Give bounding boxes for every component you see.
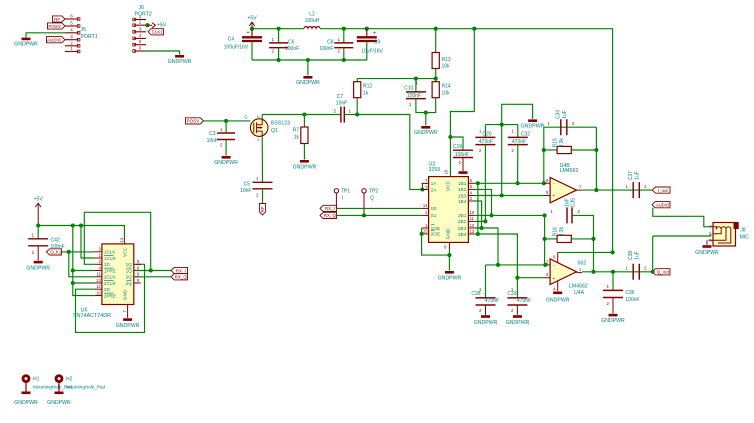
svg-text:1nF: 1nF bbox=[564, 198, 570, 207]
svg-text:U4A: U4A bbox=[574, 290, 585, 296]
svg-text:S: S bbox=[257, 138, 260, 142]
svg-text:GNDPWR: GNDPWR bbox=[695, 250, 719, 256]
svg-text:1PRE: 1PRE bbox=[104, 268, 116, 273]
svg-text:L2: L2 bbox=[309, 12, 315, 18]
svg-text:C35: C35 bbox=[571, 198, 577, 207]
svg-text:-: - bbox=[553, 181, 555, 187]
svg-text:D: D bbox=[257, 115, 260, 119]
svg-text:Q_out: Q_out bbox=[657, 270, 670, 275]
svg-text:13: 13 bbox=[96, 278, 101, 283]
svg-text:470nF: 470nF bbox=[485, 298, 499, 304]
svg-text:GNDPWR: GNDPWR bbox=[414, 130, 438, 136]
svg-text:Q: Q bbox=[370, 195, 374, 201]
svg-text:C6: C6 bbox=[288, 40, 295, 46]
svg-text:GNDPWR: GNDPWR bbox=[474, 320, 498, 326]
svg-text:2B2: 2B2 bbox=[458, 219, 467, 225]
svg-text:C42: C42 bbox=[51, 237, 60, 243]
svg-text:2B4: 2B4 bbox=[458, 232, 467, 238]
svg-text:100nF: 100nF bbox=[285, 46, 299, 52]
svg-text:J6: J6 bbox=[139, 5, 145, 11]
svg-text:14: 14 bbox=[423, 203, 428, 208]
svg-text:2B1: 2B1 bbox=[458, 213, 467, 219]
svg-text:12: 12 bbox=[470, 223, 475, 228]
svg-text:J5: J5 bbox=[81, 27, 87, 33]
svg-text:Q1: Q1 bbox=[271, 128, 278, 134]
svg-text:11: 11 bbox=[97, 272, 102, 277]
svg-text:S1: S1 bbox=[431, 213, 437, 219]
svg-text:1uF: 1uF bbox=[635, 171, 641, 180]
svg-text:TP2: TP2 bbox=[369, 189, 378, 195]
svg-text:J8: J8 bbox=[740, 228, 746, 234]
svg-text:TP1: TP1 bbox=[341, 189, 350, 195]
svg-text:LM4562: LM4562 bbox=[560, 168, 579, 174]
svg-text:1k: 1k bbox=[294, 135, 300, 141]
svg-text:GNDPWR: GNDPWR bbox=[168, 59, 192, 65]
svg-text:2CLR: 2CLR bbox=[104, 281, 116, 286]
svg-text:RF: RF bbox=[260, 206, 265, 212]
svg-text:R16: R16 bbox=[553, 227, 559, 236]
svg-text:I: I bbox=[342, 195, 343, 201]
svg-text:1Q: 1Q bbox=[126, 268, 133, 273]
svg-text:2A: 2A bbox=[431, 187, 438, 193]
svg-text:GND: GND bbox=[446, 228, 452, 239]
svg-text:+: + bbox=[373, 31, 376, 37]
svg-text:2D: 2D bbox=[104, 287, 111, 292]
svg-text:1D: 1D bbox=[104, 262, 111, 267]
svg-text:1CLK: 1CLK bbox=[104, 250, 116, 255]
svg-text:1B1: 1B1 bbox=[458, 181, 467, 187]
svg-text:562: 562 bbox=[578, 261, 587, 267]
svg-text:2OE: 2OE bbox=[431, 232, 441, 238]
svg-text:GNDPWR: GNDPWR bbox=[293, 165, 317, 171]
svg-text:+: + bbox=[552, 194, 555, 200]
svg-text:GND: GND bbox=[123, 289, 128, 300]
svg-text:C8: C8 bbox=[327, 40, 334, 46]
svg-text:GNDPWR: GNDPWR bbox=[546, 298, 570, 304]
svg-text:PORT2: PORT2 bbox=[135, 12, 152, 18]
svg-text:+5V: +5V bbox=[247, 15, 257, 21]
svg-text:POSV: POSV bbox=[48, 24, 61, 29]
svg-text:RF: RF bbox=[54, 17, 60, 22]
svg-text:VCC: VCC bbox=[123, 246, 128, 256]
svg-text:15: 15 bbox=[423, 229, 428, 234]
svg-text:GNDPWR: GNDPWR bbox=[296, 80, 320, 86]
svg-text:AUDIO: AUDIO bbox=[47, 38, 62, 43]
svg-text:T: T bbox=[709, 224, 712, 229]
svg-text:1uF: 1uF bbox=[562, 110, 568, 119]
svg-text:470nF: 470nF bbox=[479, 139, 493, 145]
svg-text:GNDPWR: GNDPWR bbox=[521, 124, 545, 130]
svg-text:PORT1: PORT1 bbox=[81, 34, 98, 40]
svg-text:MountingHole_Pad: MountingHole_Pad bbox=[66, 384, 106, 389]
svg-text:GNDPWR: GNDPWR bbox=[601, 318, 625, 324]
svg-text:C38: C38 bbox=[628, 251, 634, 260]
svg-text:1A: 1A bbox=[431, 181, 438, 187]
svg-text:R15: R15 bbox=[553, 138, 559, 147]
svg-text:-: - bbox=[553, 263, 555, 269]
svg-text:+5V: +5V bbox=[157, 22, 167, 28]
svg-text:10k: 10k bbox=[442, 64, 451, 70]
svg-text:C10: C10 bbox=[404, 85, 413, 91]
svg-text:100nF: 100nF bbox=[319, 46, 333, 52]
svg-text:SN74ACT74DR: SN74ACT74DR bbox=[73, 313, 111, 319]
svg-text:2CLK: 2CLK bbox=[104, 275, 116, 280]
svg-text:C32: C32 bbox=[521, 132, 530, 138]
svg-text:1k: 1k bbox=[363, 91, 369, 97]
svg-text:10nF: 10nF bbox=[336, 101, 347, 107]
svg-text:RX_I: RX_I bbox=[176, 268, 186, 273]
svg-text:R12: R12 bbox=[363, 84, 372, 90]
svg-text:S: S bbox=[709, 238, 712, 243]
svg-text:13: 13 bbox=[470, 229, 475, 234]
svg-text:+5V: +5V bbox=[34, 196, 44, 202]
svg-text:3.3k: 3.3k bbox=[559, 138, 565, 148]
svg-text:H2: H2 bbox=[66, 377, 73, 383]
svg-text:GNDPWR: GNDPWR bbox=[438, 276, 462, 282]
svg-text:3.3k: 3.3k bbox=[559, 226, 565, 236]
svg-text:2PRE: 2PRE bbox=[104, 293, 116, 298]
svg-text:100nF: 100nF bbox=[625, 297, 639, 303]
svg-text:RX_I: RX_I bbox=[325, 206, 335, 211]
svg-text:C37: C37 bbox=[628, 171, 634, 180]
svg-text:10uF/16V: 10uF/16V bbox=[361, 49, 383, 55]
svg-text:100nF: 100nF bbox=[455, 152, 469, 158]
svg-text:10: 10 bbox=[96, 290, 101, 295]
svg-text:470nF: 470nF bbox=[512, 139, 526, 145]
svg-text:G: G bbox=[244, 115, 247, 120]
svg-text:1uF: 1uF bbox=[635, 251, 641, 260]
svg-text:100uF/16V: 100uF/16V bbox=[224, 45, 249, 51]
svg-text:C4: C4 bbox=[228, 37, 235, 43]
svg-text:C9: C9 bbox=[374, 40, 381, 46]
svg-text:12: 12 bbox=[96, 284, 101, 289]
svg-text:11: 11 bbox=[470, 216, 475, 221]
svg-text:GNDPWR: GNDPWR bbox=[14, 400, 38, 406]
svg-text:C34: C34 bbox=[556, 110, 562, 119]
svg-text:CLK1: CLK1 bbox=[50, 250, 62, 255]
svg-text:GNDPWR: GNDPWR bbox=[47, 400, 71, 406]
svg-text:LM4562: LM4562 bbox=[569, 283, 588, 289]
svg-text:1B3: 1B3 bbox=[458, 193, 467, 199]
svg-text:GNDPWR: GNDPWR bbox=[506, 320, 530, 326]
svg-text:RX_Q: RX_Q bbox=[175, 275, 188, 280]
svg-text:+: + bbox=[246, 30, 249, 36]
svg-text:GNDPWR: GNDPWR bbox=[116, 323, 140, 329]
svg-text:C3: C3 bbox=[209, 131, 216, 137]
svg-text:R13: R13 bbox=[442, 57, 451, 63]
svg-text:RX_Q: RX_Q bbox=[324, 213, 337, 218]
svg-text:1B2: 1B2 bbox=[458, 187, 467, 193]
svg-text:GNDPWR: GNDPWR bbox=[14, 42, 38, 48]
svg-text:C36: C36 bbox=[625, 290, 634, 296]
svg-text:1B4: 1B4 bbox=[458, 199, 467, 205]
svg-text:10nF: 10nF bbox=[207, 138, 218, 144]
svg-text:16: 16 bbox=[444, 169, 449, 174]
svg-text:MIC: MIC bbox=[740, 234, 750, 240]
svg-text:14: 14 bbox=[119, 237, 124, 242]
svg-text:C20: C20 bbox=[482, 132, 491, 138]
svg-text:100nF: 100nF bbox=[407, 93, 421, 99]
svg-text:POSV: POSV bbox=[187, 119, 200, 124]
svg-text:C19: C19 bbox=[453, 144, 462, 150]
svg-text:BSS123: BSS123 bbox=[271, 121, 290, 127]
svg-text:10: 10 bbox=[470, 210, 475, 215]
svg-text:10k: 10k bbox=[442, 91, 451, 97]
svg-text:R7: R7 bbox=[293, 128, 300, 134]
svg-text:2Q: 2Q bbox=[126, 281, 133, 286]
svg-text:VCC: VCC bbox=[446, 180, 452, 191]
svg-text:GNDPWR: GNDPWR bbox=[26, 266, 50, 272]
svg-text:1Q: 1Q bbox=[126, 262, 133, 267]
svg-text:C5: C5 bbox=[244, 181, 251, 187]
svg-text:R: R bbox=[709, 232, 712, 237]
svg-text:10nF: 10nF bbox=[240, 188, 251, 194]
svg-text:2Q: 2Q bbox=[126, 275, 133, 280]
svg-text:2B3: 2B3 bbox=[458, 226, 467, 232]
svg-text:CLK1: CLK1 bbox=[152, 30, 164, 35]
svg-text:AUDIO: AUDIO bbox=[656, 203, 670, 208]
svg-text:GNDPWR: GNDPWR bbox=[214, 160, 238, 166]
svg-text:100uH: 100uH bbox=[305, 18, 320, 24]
svg-text:1CLR: 1CLR bbox=[104, 256, 116, 261]
svg-text:470nF: 470nF bbox=[517, 298, 531, 304]
svg-text:C7: C7 bbox=[337, 94, 344, 100]
svg-text:S0: S0 bbox=[431, 206, 437, 212]
svg-text:H1: H1 bbox=[33, 377, 40, 383]
svg-text:R14: R14 bbox=[442, 84, 451, 90]
svg-text:+: + bbox=[552, 276, 555, 282]
svg-text:I_out: I_out bbox=[658, 188, 669, 193]
svg-text:3253: 3253 bbox=[429, 167, 441, 173]
